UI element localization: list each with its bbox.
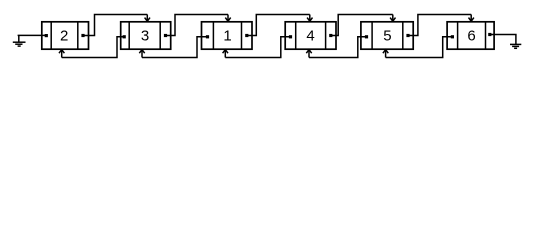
wire: next pointer node 3 -> node 1 (up and over) (166, 15, 231, 36)
node 2 box (42, 22, 89, 49)
wire: next pointer node 4 -> node 5 (up and over) (331, 15, 396, 36)
wire: prev pointer node 1 -> node 3 (down and under) (139, 37, 207, 58)
svg-text:3: 3 (141, 27, 149, 44)
wire: next pointer node 2 -> node 3 (up and over) (83, 15, 150, 36)
node 4 box (285, 22, 336, 49)
svg-text:5: 5 (383, 27, 391, 44)
node 2 next-cell origin dot (81, 34, 84, 37)
node 3 next-cell origin dot (164, 34, 167, 37)
svg-text:2: 2 (60, 27, 68, 44)
node 3 prev-cell origin dot (123, 35, 126, 38)
node 6 next-cell origin dot (488, 33, 491, 36)
node 1 box (202, 22, 253, 49)
wire: node 6 next-cell to null ground (490, 35, 516, 45)
svg-text:6: 6 (467, 27, 475, 44)
wire: prev pointer node 3 -> node 2 (down and under) (59, 37, 125, 58)
node 6 prev-cell origin dot (451, 35, 454, 38)
wire: prev pointer node 5 -> node 4 (down and under) (306, 37, 366, 58)
ground (null prev of node 2) (13, 35, 26, 46)
wire: node 2 prev-cell to null ground (18, 34, 47, 36)
wire: next pointer node 5 -> node 6 (up and over) (408, 15, 474, 36)
ground (null next of node 6) (510, 44, 521, 48)
svg-text:1: 1 (223, 27, 231, 44)
node 1 prev-cell origin dot (206, 35, 209, 38)
node 3 box (121, 22, 171, 49)
node 4 next-cell origin dot (329, 34, 332, 37)
node 1 next-cell origin dot (245, 34, 248, 37)
node 5 box (361, 22, 413, 49)
node 5 prev-cell origin dot (365, 35, 368, 38)
wire: next pointer node 1 -> node 4 (up and over) (247, 15, 313, 36)
node 4 prev-cell origin dot (289, 35, 292, 38)
node 5 next-cell origin dot (406, 34, 409, 37)
node 2 prev-cell origin dot (45, 34, 48, 37)
wire: prev pointer node 6 -> node 5 (down and under) (383, 37, 453, 58)
node 6 box (447, 22, 494, 49)
svg-text:4: 4 (306, 27, 314, 44)
wire: prev pointer node 4 -> node 1 (down and under) (223, 37, 291, 58)
